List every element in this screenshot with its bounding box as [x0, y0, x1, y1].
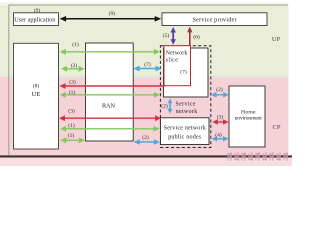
svg-text:CP: CP [273, 124, 281, 131]
svg-text:(8): (8) [33, 83, 40, 90]
svg-text:(3): (3) [217, 114, 224, 121]
svg-text:(9): (9) [34, 7, 41, 14]
svg-text:slice: slice [166, 57, 178, 63]
svg-text:UE: UE [32, 91, 41, 98]
svg-text:(7): (7) [180, 69, 187, 76]
svg-text:UP: UP [272, 36, 281, 43]
svg-text:network: network [176, 109, 198, 115]
svg-text:environment: environment [235, 115, 262, 121]
svg-text:(2): (2) [161, 102, 168, 109]
svg-text:(2): (2) [142, 134, 149, 141]
svg-text:Network: Network [166, 50, 188, 56]
svg-text:(1): (1) [69, 89, 76, 96]
svg-text:Service network: Service network [164, 126, 206, 132]
svg-text:(1): (1) [68, 122, 75, 129]
svg-text:(1): (1) [68, 132, 75, 139]
svg-text:Service provider: Service provider [193, 17, 237, 24]
svg-text:(2): (2) [71, 62, 78, 69]
svg-text:(3): (3) [69, 78, 76, 85]
svg-text:User application: User application [14, 17, 55, 24]
svg-text:(5): (5) [163, 32, 170, 39]
svg-text:public nodes: public nodes [168, 135, 202, 141]
svg-text:(6): (6) [193, 33, 200, 40]
svg-text:Service: Service [176, 102, 196, 108]
svg-text:(4): (4) [215, 132, 222, 139]
svg-text:(1): (1) [72, 41, 79, 48]
svg-text:(7): (7) [144, 61, 151, 68]
svg-text:RAN: RAN [102, 102, 116, 109]
svg-text:(2): (2) [216, 86, 223, 93]
svg-text:(3): (3) [68, 108, 75, 115]
svg-text:(9): (9) [109, 10, 116, 17]
